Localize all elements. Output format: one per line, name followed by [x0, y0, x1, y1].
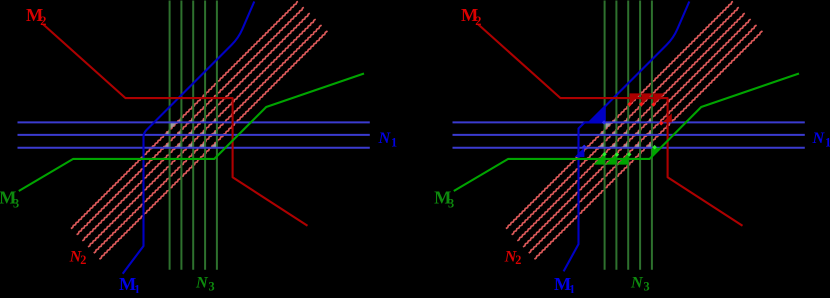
- svg-text:N: N: [195, 273, 209, 291]
- svg-text:3: 3: [448, 196, 454, 210]
- curve M2 (left panel, dark red): [43, 24, 307, 225]
- svg-text:1: 1: [134, 283, 140, 294]
- red line bundle N2 (left panel): [71, 2, 298, 229]
- svg-text:1: 1: [825, 135, 830, 149]
- big move-triangle green (right panel): [652, 148, 662, 158]
- svg-text:1: 1: [569, 283, 575, 294]
- green move arrows (right panel): [594, 153, 605, 164]
- curve M3 (right panel, green): [454, 74, 799, 192]
- green line bundle N3 (right panel): [604, 1, 606, 270]
- blue line bundle N1 (right panel): [453, 121, 805, 123]
- svg-text:2: 2: [80, 253, 86, 267]
- blue line bundle N1 (left panel): [18, 121, 370, 123]
- curve M1 (left panel, blue): [123, 2, 255, 274]
- svg-text:1: 1: [391, 135, 397, 149]
- svg-text:3: 3: [209, 279, 215, 293]
- red move arrows (right panel): [630, 93, 642, 105]
- svg-text:N: N: [630, 273, 644, 291]
- red move dots: [627, 102, 632, 107]
- green line bundle N3 (left panel): [169, 1, 171, 270]
- big move-triangle red (right panel): [663, 113, 672, 122]
- blue move arrow (right panel): [575, 147, 585, 157]
- blue move dots: [582, 145, 587, 150]
- svg-text:2: 2: [40, 14, 46, 28]
- curve M3 (left panel, green): [19, 74, 364, 192]
- svg-text:3: 3: [13, 196, 19, 210]
- green move dots: [602, 152, 607, 157]
- svg-text:2: 2: [515, 253, 521, 267]
- shaded triple-point triangles (left panel): [170, 122, 178, 129]
- svg-text:2: 2: [475, 14, 481, 28]
- red line bundle N2 (right panel): [506, 2, 733, 229]
- svg-text:N: N: [378, 129, 392, 147]
- shaded triple-point triangles (right panel): [605, 122, 613, 129]
- svg-text:N: N: [812, 129, 826, 147]
- curve M2 (right panel, dark red): [478, 24, 742, 225]
- big move-triangle blue (right panel): [588, 105, 605, 122]
- curve M1 (right panel, blue, rerouted): [564, 2, 690, 272]
- svg-text:3: 3: [644, 279, 650, 293]
